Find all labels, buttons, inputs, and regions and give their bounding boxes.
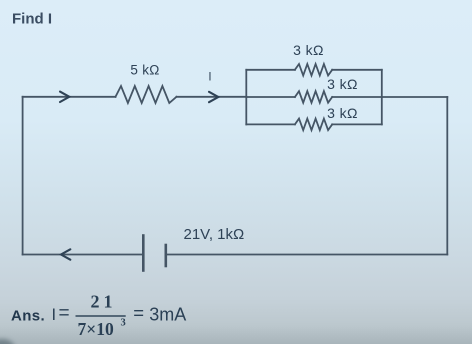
svg-text:5 kΩ: 5 kΩ (130, 62, 159, 77)
wire box right edge (381, 70, 383, 125)
wire left vertical (22, 97, 24, 255)
svg-text:21V, 1kΩ: 21V, 1kΩ (184, 226, 245, 243)
wire top-left segment (23, 96, 116, 98)
svg-text:Find I: Find I (12, 10, 52, 27)
resistor R4 3k zigzag (295, 119, 332, 131)
wire middle branch left (246, 96, 295, 98)
svg-text:Ans.: Ans. (11, 308, 45, 325)
resistor R3 3k zigzag (295, 91, 332, 103)
wire middle branch right (332, 96, 382, 98)
wire box left edge (245, 70, 247, 125)
wire top branch left (246, 69, 295, 71)
arrow current direction top-left (60, 92, 69, 102)
wire R1 to parallel box (177, 96, 247, 98)
battery B1 short plate (165, 245, 168, 266)
svg-text:7×10: 7×10 (78, 319, 114, 339)
svg-text:3 kΩ: 3 kΩ (327, 76, 358, 92)
svg-text:I: I (208, 72, 211, 84)
battery B1 long plate (142, 236, 145, 271)
arrow current direction bottom (61, 249, 70, 259)
wire box to right corner (382, 96, 448, 98)
answer fraction bar (76, 315, 126, 317)
wire bottom branch left (246, 123, 295, 125)
watermark blob bottom-left (0, 339, 15, 344)
wire bottom left of battery (23, 254, 144, 256)
svg-text:I: I (52, 306, 57, 324)
wire bottom right of battery (166, 254, 448, 256)
resistor R1 5k zigzag (116, 86, 177, 103)
resistor R2 3k zigzag (295, 64, 332, 76)
svg-text:21: 21 (91, 292, 113, 312)
wire right vertical (446, 97, 448, 255)
wire bottom branch right (332, 123, 382, 125)
svg-text:3 kΩ: 3 kΩ (327, 105, 358, 121)
wire top branch right (332, 69, 382, 71)
svg-text:=: = (59, 303, 70, 324)
svg-text:3mA: 3mA (149, 305, 186, 325)
arrow current I after R1 (209, 92, 218, 102)
svg-text:3 kΩ: 3 kΩ (293, 42, 324, 58)
svg-text:3: 3 (121, 318, 126, 329)
svg-text:=: = (133, 302, 144, 323)
